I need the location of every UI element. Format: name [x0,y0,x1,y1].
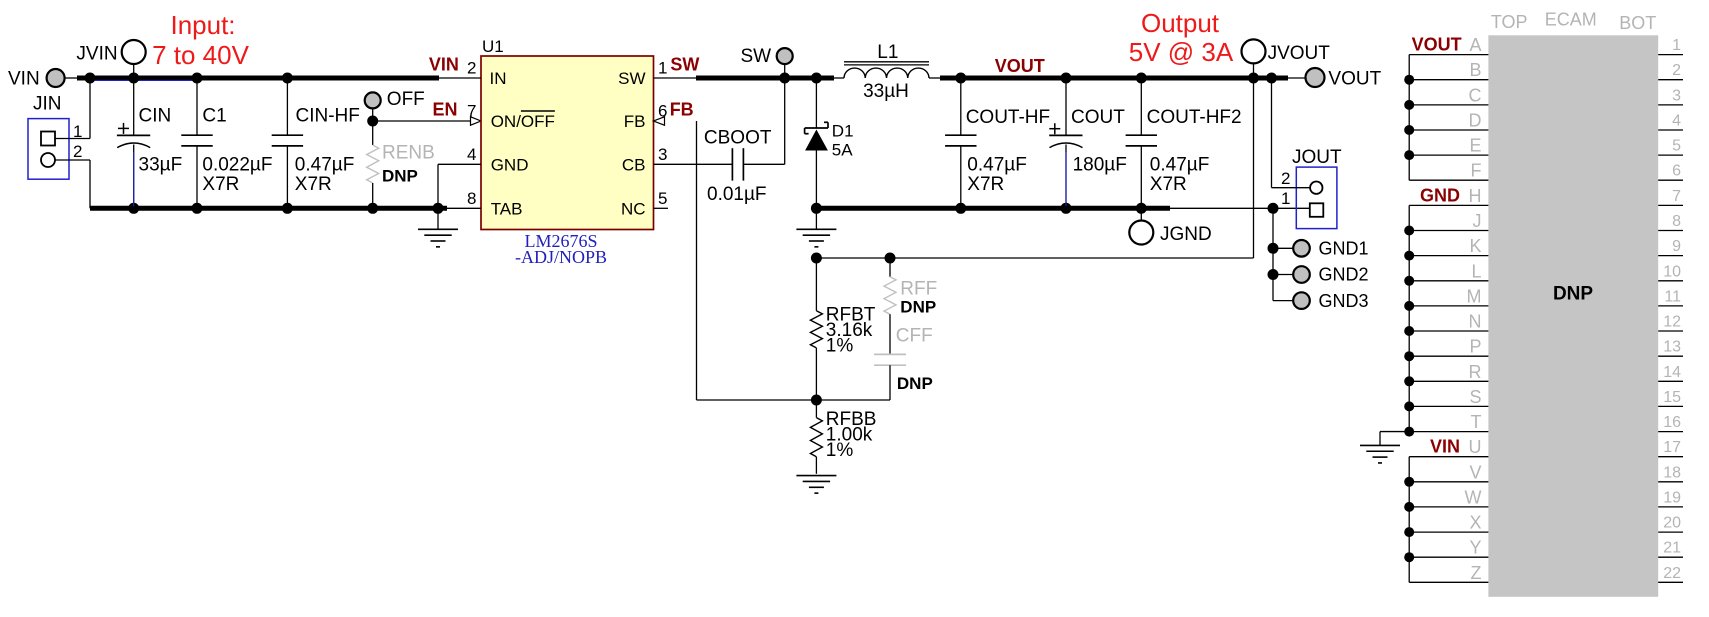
svg-text:21: 21 [1663,540,1681,557]
svg-text:7: 7 [467,102,476,121]
svg-text:5A: 5A [832,141,853,160]
svg-text:5V @ 3A: 5V @ 3A [1129,37,1234,67]
ECAM row N / pin 12 [1409,312,1683,332]
svg-text:0.47µF: 0.47µF [967,155,1027,176]
svg-text:JOUT: JOUT [1292,147,1342,168]
svg-text:1%: 1% [826,336,854,357]
svg-text:CB: CB [622,155,646,174]
svg-text:X: X [1469,513,1481,533]
terminal JGND [1129,208,1211,245]
wire U1 TAB pin 8 [438,207,481,209]
resistor RENB DNP [367,121,379,208]
svg-text:3: 3 [658,145,667,164]
svg-text:R: R [1469,362,1482,382]
svg-text:16: 16 [1663,414,1681,431]
JIN pin 2 pad [41,153,55,167]
ECAM row C / pin 3 [1409,85,1683,105]
wire blue net artifact on VIN rail [95,79,196,81]
junction ECAM VIN bus row V [1404,477,1414,487]
svg-text:1%: 1% [826,440,854,461]
junction C1 / VIN rail [192,73,203,84]
JIN pin 1 pad [41,132,55,146]
wire VOUT rail [940,76,1288,81]
ECAM row M / pin 11 [1409,286,1683,306]
svg-text:DNP: DNP [900,298,936,317]
ground below RFBB [796,475,836,477]
junction ECAM GND bus row P [1404,351,1414,361]
svg-text:VOUT: VOUT [1328,69,1381,90]
svg-text:DNP: DNP [382,167,418,186]
svg-text:8: 8 [1672,213,1681,230]
junction COUT / VOUT rail [1061,73,1072,84]
wire VOUT sense vertical [1253,78,1255,258]
svg-text:JIN: JIN [33,94,62,115]
ECAM row V / pin 18 [1409,462,1683,482]
svg-text:GND: GND [1420,185,1460,205]
junction CIN-HF / VIN rail [282,73,293,84]
junction ECAM VIN bus row W [1404,502,1414,512]
ECAM row F / pin 6 [1409,161,1683,181]
svg-text:2: 2 [1281,169,1290,188]
svg-text:D: D [1469,111,1482,131]
svg-text:DNP: DNP [1553,284,1593,305]
svg-text:20: 20 [1663,515,1681,532]
svg-text:SW: SW [670,55,699,75]
junction COUT-HF2 / output ground rail [1136,203,1147,214]
svg-text:5: 5 [658,189,667,208]
terminal GND2 [1273,265,1369,285]
terminal GND1 [1273,239,1369,259]
svg-text:V: V [1469,462,1481,482]
svg-text:X7R: X7R [967,174,1004,195]
svg-text:X7R: X7R [202,174,239,195]
svg-text:C: C [1469,85,1482,105]
junction JOUT pin2 wire / VOUT rail [1266,73,1277,84]
wire NC stub [654,207,669,209]
junction RENB / ground rail [367,203,378,214]
junction D1 / output ground rail [811,203,822,214]
svg-text:10: 10 [1663,263,1681,280]
terminal SW [741,46,793,78]
node EN junction [367,116,378,127]
ECAM row T / pin 16 [1409,412,1683,432]
svg-text:F: F [1471,161,1482,181]
terminal JVOUT [1242,39,1331,78]
ground below D1 [796,208,836,247]
junction JIN riser / VIN rail [85,73,96,84]
svg-text:7 to 40V: 7 to 40V [152,40,250,70]
svg-text:E: E [1469,136,1481,156]
junction GND2 [1268,269,1279,280]
junction RFBT / sense wire [811,253,822,264]
svg-text:2: 2 [467,59,476,78]
junction CIN-HF / ground rail [282,203,293,214]
svg-text:COUT: COUT [1071,107,1125,128]
ECAM row Z / pin 22 [1409,563,1683,583]
svg-text:5: 5 [1672,138,1681,155]
capacitor CIN-HF 0.47uF [272,78,303,208]
svg-text:Z: Z [1471,563,1482,583]
wire FB net bottom horizontal [697,399,891,401]
wire ECAM GND bus [1408,205,1410,431]
svg-text:M: M [1467,286,1482,306]
junction ECAM VIN bus row Y [1404,552,1414,562]
svg-text:X7R: X7R [1150,174,1187,195]
wire CB pin to CBOOT [654,163,733,165]
junction GND terminals bus / ground wire [1268,203,1279,214]
svg-text:IN: IN [490,69,507,88]
ground for ECAM [1360,444,1400,446]
junction CIN / ground rail [128,203,139,214]
svg-text:S: S [1469,387,1481,407]
svg-text:L1: L1 [877,42,898,63]
ECAM row A / pin 1 [1409,35,1683,55]
svg-text:7: 7 [1672,188,1681,205]
ECAM row S / pin 15 [1409,387,1683,407]
wire ECAM GND bus to ground [1380,432,1409,446]
svg-text:ON/OFF: ON/OFF [491,112,555,131]
svg-text:2: 2 [1672,62,1681,79]
svg-text:2: 2 [73,142,82,161]
svg-text:L: L [1471,261,1481,281]
svg-text:GND: GND [491,155,529,174]
svg-text:NC: NC [621,199,646,218]
inductor L1 33uH [834,62,941,78]
svg-text:22: 22 [1663,565,1681,582]
svg-text:4: 4 [1672,113,1681,130]
svg-text:COUT-HF: COUT-HF [966,107,1050,128]
capacitor CFF DNP [874,354,906,400]
svg-text:3: 3 [1672,87,1681,104]
JOUT pin 2 pad [1310,182,1322,194]
resistor RFBT 3.16k [810,258,822,400]
svg-text:H: H [1469,186,1482,206]
svg-text:VOUT: VOUT [995,56,1045,76]
ECAM row R / pin 14 [1409,362,1683,382]
junction ECAM GND bus row S [1404,401,1414,411]
junction ECAM VOUT bus row C [1404,100,1414,110]
junction ECAM VOUT bus row E [1404,150,1414,160]
wire ground rail to JOUT pin1 [1170,207,1310,209]
svg-text:COUT-HF2: COUT-HF2 [1147,107,1242,128]
svg-text:15: 15 [1663,389,1681,406]
ECAM row J / pin 8 [1409,211,1683,231]
wire IN pin stub [437,77,481,79]
wire VOUT sense horizontal to feedback [816,257,1254,259]
ECAM row K / pin 9 [1409,236,1683,256]
wire ECAM VOUT bus [1408,55,1410,181]
junction ECAM GND bus row T [1404,427,1414,437]
junction COUT-HF2 / VOUT rail [1136,73,1147,84]
regulator U1 LM2676S body [481,56,654,230]
arrow into ON/OFF pin [471,117,482,125]
terminal OFF [365,89,425,121]
junction ECAM GND bus row R [1404,376,1414,386]
svg-text:Y: Y [1469,538,1481,558]
capacitor COUT 180uF electrolytic [1049,78,1082,208]
diode D1 5A schottky [805,78,828,208]
wire JIN pin1 to VIN rail [55,78,90,139]
svg-text:1: 1 [1281,189,1290,208]
svg-text:DNP: DNP [897,374,933,393]
wire SW pin stub [654,77,698,79]
svg-text:J: J [1473,211,1482,231]
terminal JVIN [76,40,145,78]
svg-text:SW: SW [618,69,645,88]
svg-text:TAB: TAB [491,199,523,218]
ECAM row H / pin 7 [1409,186,1683,206]
terminal VIN [8,69,78,90]
wire GND terminals bus [1272,208,1274,300]
svg-text:11: 11 [1664,288,1681,305]
junction ECAM VIN bus row X [1404,527,1414,537]
svg-text:TOP: TOP [1491,12,1528,32]
junction JVOUT and sense wire / VOUT rail [1248,73,1259,84]
wire FB net vertical [696,121,698,400]
svg-text:4: 4 [467,145,476,164]
capacitor CBOOT 0.01uF [732,148,743,180]
junction D1 / SW rail [811,73,822,84]
junction GND1 [1268,243,1279,254]
svg-text:1: 1 [658,59,667,78]
ECAM row B / pin 2 [1409,60,1683,80]
wire SW rail [696,76,834,81]
svg-text:EN: EN [433,100,458,120]
connector JOUT [1292,147,1342,229]
svg-text:RFF: RFF [900,279,937,300]
ground below U1 [418,208,458,247]
note Output 5V @ 3A [1129,8,1234,67]
svg-text:FB: FB [670,100,694,120]
svg-text:A: A [1469,35,1481,55]
svg-text:14: 14 [1663,364,1681,381]
svg-text:W: W [1465,487,1482,507]
ECAM row X / pin 20 [1409,513,1683,533]
note Input: 7 to 40V [152,10,250,70]
svg-text:ECAM: ECAM [1545,10,1597,30]
svg-text:JGND: JGND [1160,224,1212,245]
svg-text:OFF: OFF [387,89,425,110]
wire U1 GND pin 4 [438,164,481,208]
value 0.47uF X7R [967,155,1027,196]
value 0.47uF X7R [1150,155,1210,196]
svg-text:JVOUT: JVOUT [1268,43,1331,64]
junction RFBT / RFBB / FB net [811,395,822,406]
connector ECAM DNP body [1488,35,1658,597]
svg-text:CIN: CIN [139,106,172,127]
svg-text:0.01µF: 0.01µF [707,184,767,205]
svg-text:N: N [1469,312,1482,332]
svg-text:X7R: X7R [295,174,332,195]
junction ECAM GND bus row L [1404,276,1414,286]
junction ECAM VOUT bus row B [1404,75,1414,85]
junction JVIN / CIN / VIN rail [128,73,139,84]
svg-text:U: U [1469,437,1482,457]
capacitor C1 0.022uF [181,78,212,208]
wire JIN pin2 to ground rail [55,160,90,208]
svg-text:VIN: VIN [8,69,40,90]
junction ECAM GND bus row K [1404,251,1414,261]
ECAM row Y / pin 21 [1409,538,1683,558]
svg-text:K: K [1469,236,1481,256]
svg-text:BOT: BOT [1619,13,1656,33]
svg-text:-ADJ/NOPB: -ADJ/NOPB [515,247,607,267]
junction COUT-HF / VOUT rail [955,73,966,84]
svg-text:CIN-HF: CIN-HF [296,106,360,127]
terminal VOUT [1288,68,1382,90]
svg-text:GND1: GND1 [1319,239,1369,259]
svg-text:GND3: GND3 [1319,291,1369,311]
svg-text:GND2: GND2 [1319,265,1369,285]
ECAM row D / pin 4 [1409,111,1683,131]
ECAM row W / pin 19 [1409,487,1683,507]
junction ECAM VOUT bus row D [1404,125,1414,135]
resistor RFBB 1.00k [810,400,822,474]
junction C1 / ground rail [192,203,203,214]
svg-text:19: 19 [1663,489,1681,506]
wire output ground rail [816,206,1170,211]
svg-text:9: 9 [1672,238,1681,255]
svg-text:13: 13 [1663,339,1681,356]
svg-text:U1: U1 [482,37,504,56]
svg-text:VIN: VIN [429,55,459,75]
junction U1 GND-TAB / ground rail [433,203,444,214]
connector JIN [28,94,69,180]
svg-text:RENB: RENB [382,143,435,164]
wire blue net artifact COUT lead [1065,152,1067,206]
ECAM row U / pin 17 [1409,437,1683,457]
svg-text:T: T [1471,412,1482,432]
value LM2676S-ADJ/NOPB [515,231,607,267]
svg-text:180µF: 180µF [1073,155,1127,176]
junction COUT / output ground rail [1061,203,1072,214]
svg-text:12: 12 [1663,314,1681,331]
value 0.022uF X7R [202,155,272,196]
label RFBB 1.00k 1% [826,409,877,461]
junction ECAM GND bus row J [1404,226,1414,236]
junction SW terminal / CBOOT riser [779,73,790,84]
svg-text:0.022µF: 0.022µF [202,155,272,176]
svg-text:Output: Output [1141,8,1220,38]
wire JOUT pin 2 to VOUT rail [1272,78,1311,188]
svg-text:17: 17 [1663,439,1681,456]
svg-text:1: 1 [1672,37,1681,54]
svg-text:P: P [1469,337,1481,357]
svg-text:FB: FB [624,112,646,131]
JOUT pin 1 pad [1310,203,1324,217]
svg-text:33µH: 33µH [863,81,909,102]
svg-text:0.47µF: 0.47µF [1150,155,1210,176]
ECAM row E / pin 5 [1409,136,1683,156]
svg-text:VOUT: VOUT [1412,35,1462,55]
ECAM row P / pin 13 [1409,337,1683,357]
wire VIN top rail [77,76,439,81]
wire input ground rail [90,206,447,211]
svg-text:Input:: Input: [170,10,235,40]
svg-text:CFF: CFF [896,326,933,347]
svg-text:JVIN: JVIN [76,44,117,65]
value 0.47uF X7R [295,155,355,196]
wire EN to U1 pin 7 [373,120,471,122]
svg-text:0.47µF: 0.47µF [295,155,355,176]
wire CBOOT to SW node [743,78,784,164]
svg-text:6: 6 [1672,163,1681,180]
svg-text:VIN: VIN [1430,437,1460,457]
svg-text:CBOOT: CBOOT [704,128,772,149]
svg-text:33µF: 33µF [139,155,183,176]
junction COUT-HF / output ground rail [955,203,966,214]
svg-text:18: 18 [1663,464,1681,481]
pin name ON/OFF with overline [491,111,555,131]
svg-text:B: B [1469,60,1481,80]
svg-text:SW: SW [741,46,772,67]
svg-text:D1: D1 [832,122,854,141]
junction RFF / sense wire [885,253,896,264]
capacitor COUT-HF2 0.47uF [1126,78,1157,208]
junction ECAM GND bus row M [1404,301,1414,311]
svg-text:C1: C1 [202,106,226,127]
wire blue net artifact CIN lead [133,152,135,206]
arrow into FB pin 6 [654,117,665,125]
terminal GND3 [1273,291,1369,311]
wire ECAM VIN bus [1408,457,1410,583]
resistor RFF DNP [884,258,896,354]
capacitor COUT-HF 0.47uF [945,78,976,208]
label RFBT 3.16k 1% [826,305,876,357]
ECAM row L / pin 10 [1409,261,1683,281]
capacitor CIN 33uF electrolytic [117,78,150,208]
junction ECAM GND bus row N [1404,326,1414,336]
svg-text:8: 8 [467,189,476,208]
